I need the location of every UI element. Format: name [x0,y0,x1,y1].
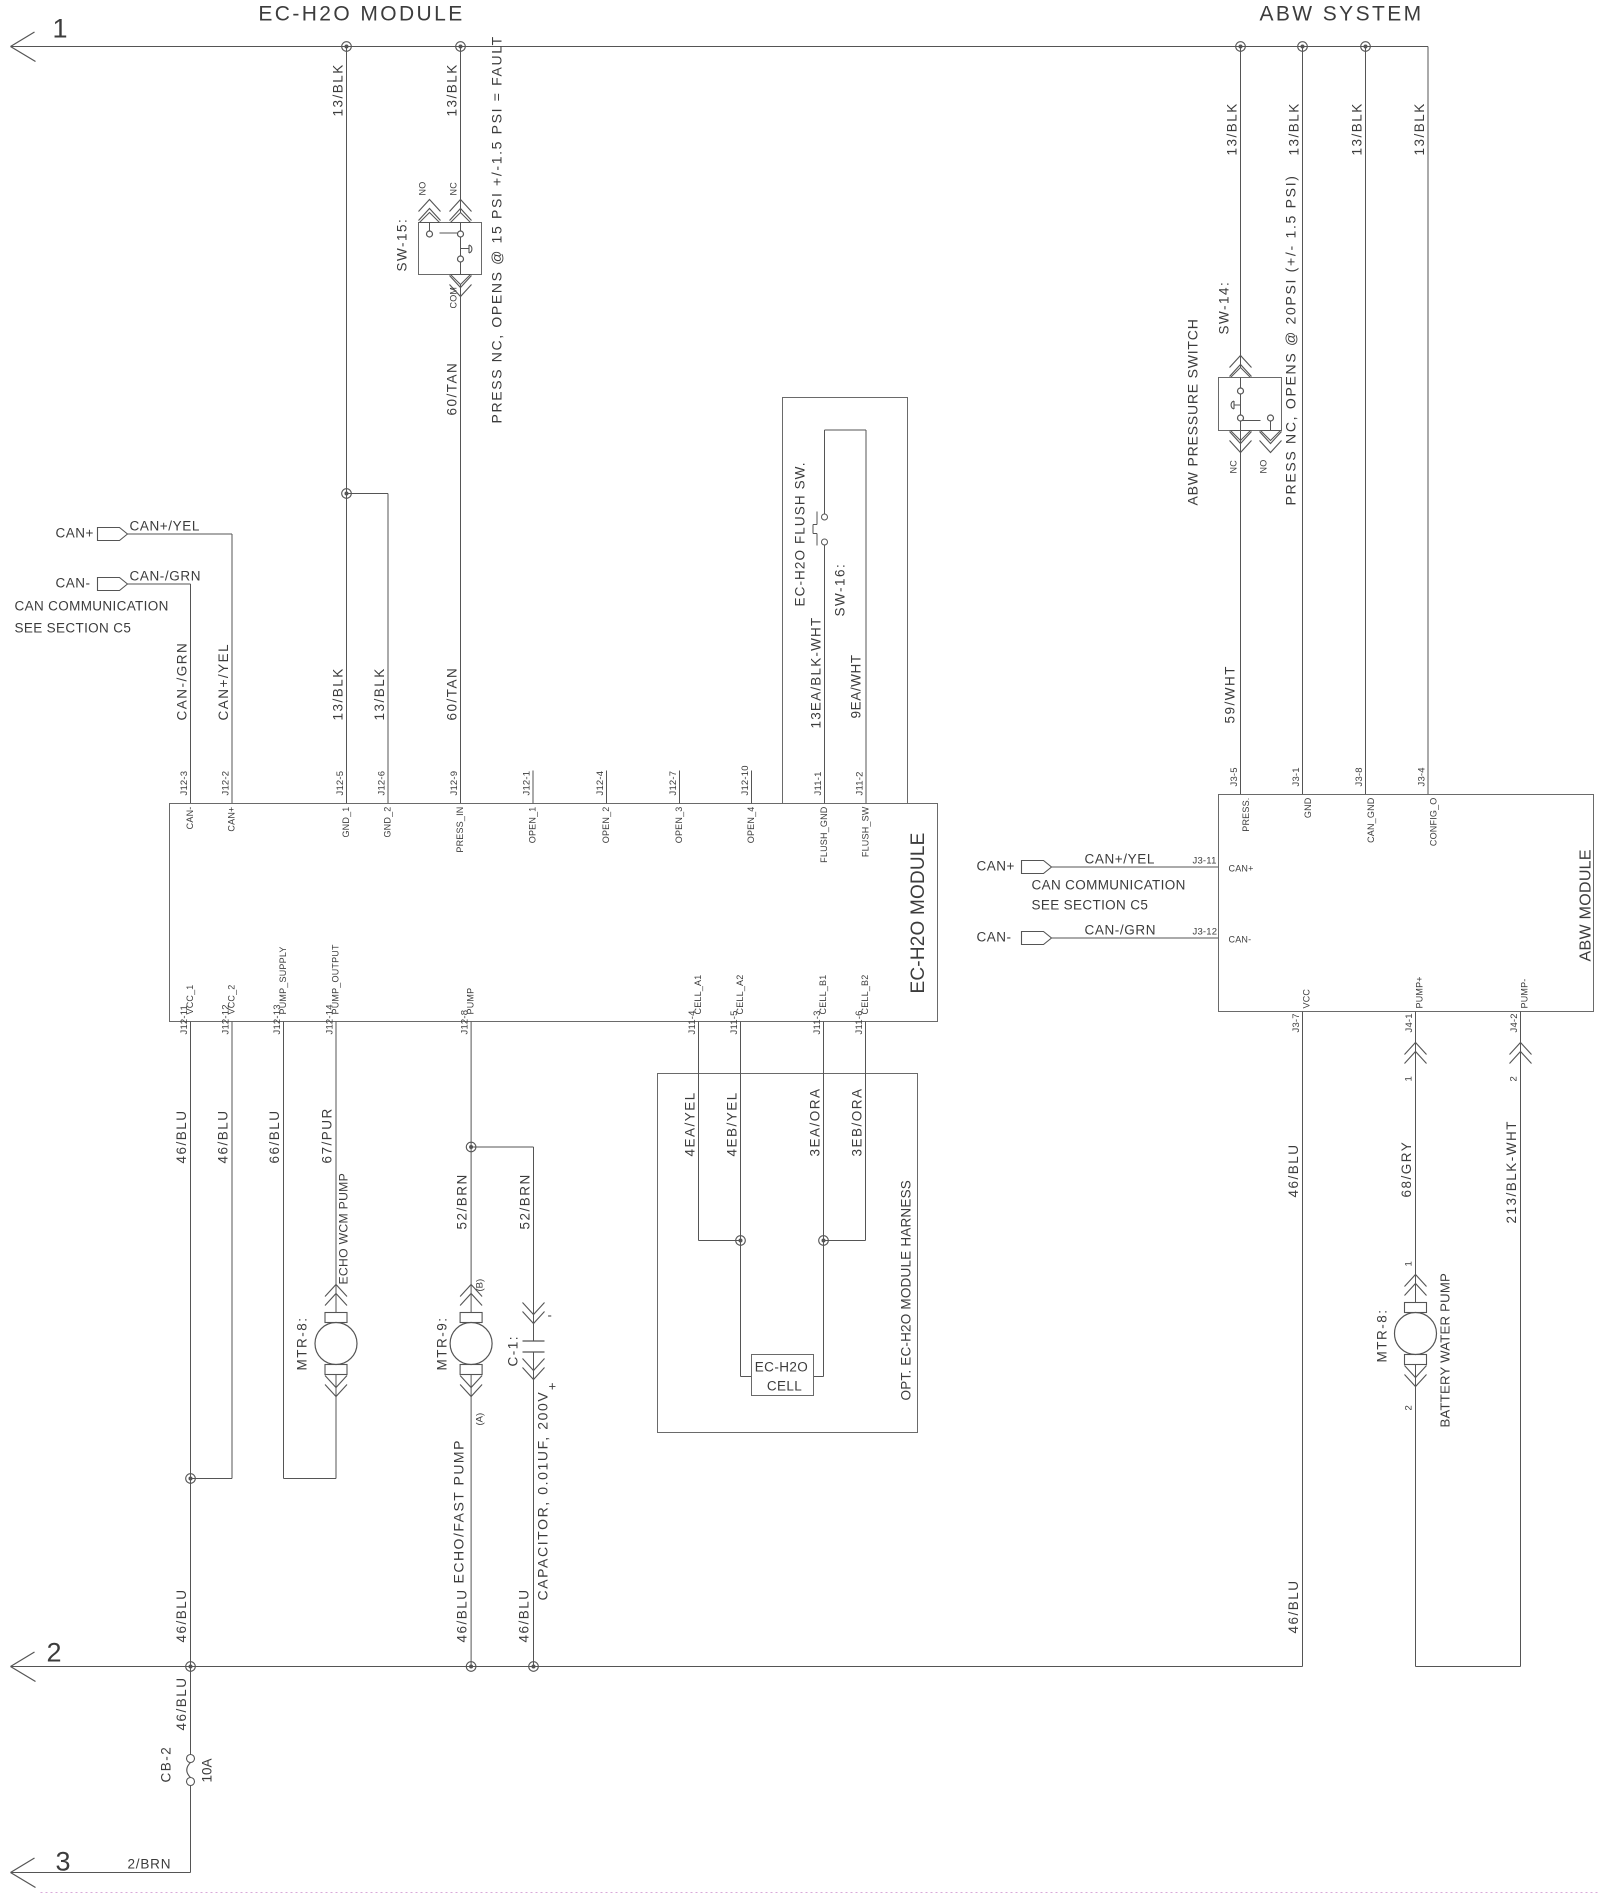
svg-text:10A: 10A [200,1758,215,1782]
svg-text:J3-5: J3-5 [1229,767,1240,786]
svg-text:SEE SECTION C5: SEE SECTION C5 [1032,898,1149,913]
pin J12-7 OPEN_3 [668,771,684,844]
svg-text:J11-1: J11-1 [813,771,824,795]
svg-text:60/TAN: 60/TAN [445,362,460,416]
svg-text:CB-2: CB-2 [159,1746,174,1783]
pin J12-3 CAN- [179,771,195,830]
svg-text:13/BLK: 13/BLK [445,63,460,116]
svg-text:J11-2: J11-2 [855,771,866,795]
wire 4EA/YEL [683,1022,741,1241]
svg-text:PUMP-: PUMP- [1520,979,1530,1009]
svg-text:J3-7: J3-7 [1291,1013,1302,1032]
label ECHO WCM PUMP [337,1173,351,1285]
svg-text:ABW MODULE: ABW MODULE [1578,849,1595,961]
SW-15 pin NC [449,182,472,237]
svg-text:1: 1 [1404,1076,1415,1081]
switch SW-16 contacts [822,514,828,545]
pin J12-9 PRESS_IN [449,771,465,853]
svg-text:SW-14:: SW-14: [1217,281,1232,335]
SW-15 label [395,218,410,272]
svg-text:CAN+: CAN+ [977,859,1015,874]
EC-H2O module box [170,804,938,1022]
SW-14 label [1217,281,1232,335]
label ECHO/FAST PUMP [451,1439,467,1583]
pin J12-10 OPEN_4 [740,765,756,843]
wire cap branch link [471,1146,533,1148]
wire C-1 to bus 2 [517,1352,545,1667]
svg-text:66/BLU: 66/BLU [267,1109,282,1163]
svg-text:PRESS NC, OPENS @ 15 PSI +/-1.: PRESS NC, OPENS @ 15 PSI +/-1.5 PSI = FA… [489,35,505,423]
svg-text:3EA/ORA: 3EA/ORA [808,1087,823,1156]
svg-text:CAN-/GRN: CAN-/GRN [130,569,202,584]
note CAN communication right [1032,878,1186,913]
svg-text:13/BLK: 13/BLK [331,63,346,116]
svg-text:NC: NC [1229,460,1239,474]
svg-text:FLUSH_SW: FLUSH_SW [861,806,871,857]
svg-text:PUMP+: PUMP+ [1415,976,1425,1008]
wire 46/BLU VCC abw [1286,1012,1303,1667]
svg-text:CAN COMMUNICATION: CAN COMMUNICATION [15,599,169,614]
svg-text:52/BRN: 52/BRN [455,1173,470,1229]
svg-text:CELL_A1: CELL_A1 [693,975,703,1015]
svg-text:46/BLU: 46/BLU [1286,1143,1301,1197]
svg-text:COM: COM [449,287,459,309]
svg-text:VCC: VCC [1302,989,1312,1009]
note CAN communication left [15,599,169,636]
pressure switch SW-15 body [419,223,482,275]
svg-text:PUMP: PUMP [466,988,476,1015]
svg-text:MTR-8:: MTR-8: [1375,1309,1390,1363]
SW-15 pin COM [449,256,472,309]
svg-text:OPEN_3: OPEN_3 [674,807,684,844]
svg-text:J3-8: J3-8 [1354,767,1365,786]
pin J11-4 CELL_A1 [687,975,703,1035]
CAN+ tag left [98,528,128,541]
wire CAN+/YEL right [1052,852,1219,868]
circuit breaker CB-2 [187,1755,195,1786]
pin J3-1 GND [1291,767,1313,818]
EC-H2O cell box [752,1355,814,1396]
svg-text:CAN-: CAN- [1229,935,1252,945]
junction cell A [736,1236,746,1246]
svg-text:CAPACITOR, 0.01UF, 200V: CAPACITOR, 0.01UF, 200V [535,1391,551,1601]
junction 13/BLK branch [342,489,352,499]
wire pump return [1416,1365,1521,1667]
svg-text:13/BLK: 13/BLK [331,667,346,720]
wire 13/BLK to SW-14 [1225,47,1241,378]
SW-14 lever [1243,420,1261,422]
wire 13/BLK to J3-8 [1350,47,1366,795]
svg-text:46/BLU: 46/BLU [174,1676,189,1730]
MTR-9 terminal A [475,1413,486,1426]
svg-text:CAN+/YEL: CAN+/YEL [130,519,200,534]
junction line1-13/BLK-b [456,42,466,52]
pin J3-7 VCC [1291,989,1312,1033]
pin J11-1 FLUSH_GND [813,771,829,862]
svg-text:BATTERY WATER PUMP: BATTERY WATER PUMP [1438,1273,1453,1428]
SW-14 note [1283,174,1299,505]
svg-text:ECHO WCM PUMP: ECHO WCM PUMP [337,1173,351,1285]
svg-text:CAN+/YEL: CAN+/YEL [216,643,231,721]
pin J12-6 GND_2 [377,771,393,838]
motor MTR-8 battery water pump [1395,1261,1437,1410]
svg-text:CAN+: CAN+ [227,807,237,832]
bus 3 arrow [11,1858,36,1888]
junction line1-CANGND [1361,42,1371,52]
svg-text:13/BLK: 13/BLK [372,667,387,720]
svg-text:13/BLK: 13/BLK [1225,102,1240,155]
SW-15 pin NO [418,182,441,237]
CAN- label left [56,576,91,591]
pin J11-6 CELL_B2 [854,975,870,1035]
wire CAN-/GRN left [128,569,202,804]
svg-text:MTR-8:: MTR-8: [295,1317,310,1371]
junction bus2 MTR9 [466,1662,476,1672]
svg-text:2: 2 [47,1638,62,1668]
svg-text:2/BRN: 2/BRN [128,1857,172,1872]
wire 66/BLU PUMP_SUPPLY [267,1022,336,1479]
label ABW PRESSURE SWITCH [1185,318,1201,505]
junction line1-13/BLK-a [342,42,352,52]
svg-text:OPT. EC-H2O MODULE HARNESS: OPT. EC-H2O MODULE HARNESS [899,1180,914,1401]
battery MTR-8 label [1375,1309,1390,1363]
svg-text:NO: NO [1259,460,1269,474]
svg-text:46/BLU: 46/BLU [174,1588,189,1642]
svg-text:EC-H2O: EC-H2O [755,1360,808,1375]
wire 13EA/BLK-WHT [809,545,825,804]
svg-text:MTR-9:: MTR-9: [435,1317,450,1371]
pin J12-13 PUMP_SUPPLY [272,946,288,1034]
SW-15 note [489,35,505,423]
svg-text:13/BLK: 13/BLK [1350,102,1365,155]
pin J11-3 CELL_B1 [812,975,828,1035]
SW-14 contact NO [1268,415,1274,421]
pin J12-8 PUMP [460,988,476,1035]
wire CAN+/YEL left [128,519,233,804]
EC-H2O cell label [755,1360,808,1394]
wire 13/BLK to J3-4 [1412,47,1428,795]
pin J12-5 GND_1 [335,771,351,838]
svg-text:CAN-: CAN- [185,807,195,830]
SW-15 lever [440,232,458,234]
svg-text:(B): (B) [475,1279,486,1292]
svg-text:J3-1: J3-1 [1291,767,1302,786]
svg-text:4EA/YEL: 4EA/YEL [683,1091,698,1156]
SW-14 pin top [1230,356,1252,378]
svg-text:59/WHT: 59/WHT [1223,665,1238,724]
pin J4-2 PUMP- [1509,979,1530,1033]
label BATTERY WATER PUMP [1438,1273,1453,1428]
junction pump/cap [466,1142,476,1152]
svg-text:VCC_1: VCC_1 [185,984,195,1014]
CAN- tag left [98,578,128,591]
svg-text:GND_1: GND_1 [341,807,351,838]
wire 59/WHT to J3-5 [1223,431,1241,795]
wire 52/BRN capacitor [518,1147,545,1341]
svg-text:OPEN_4: OPEN_4 [746,807,756,844]
SW-14 pin NO [1259,421,1282,474]
wire 60/TAN to J12-9 [445,285,461,804]
svg-text:2: 2 [1509,1076,1520,1081]
switch SW-16 label [833,563,848,617]
svg-text:PRESS.: PRESS. [1241,798,1251,832]
wire bus 2 [11,1666,1303,1668]
bus 2 label [47,1638,62,1668]
CB-2 rating [200,1758,215,1782]
svg-text:J4-2: J4-2 [1509,1013,1520,1032]
svg-text:CELL: CELL [767,1379,802,1394]
svg-text:46/BLU: 46/BLU [216,1109,231,1163]
junction VCC tie [186,1474,196,1484]
svg-text:J12-10: J12-10 [740,765,751,795]
wire 3EA/ORA [808,1022,824,1377]
EC-H2O flush switch box [783,398,908,804]
wire 46/BLU VCC_2 [191,1022,233,1479]
svg-text:NO: NO [418,182,428,196]
svg-text:FLUSH_GND: FLUSH_GND [819,806,829,863]
wire 13/BLK to J3-1 [1287,47,1303,795]
wire 4EB/YEL [725,1022,752,1377]
pin J12-14 PUMP_OUTPUT [325,944,341,1035]
junction line1-GND [1298,42,1308,52]
wire 68/GRY PUMP+ [1399,1012,1427,1303]
svg-text:NC: NC [449,182,459,196]
svg-text:ABW SYSTEM: ABW SYSTEM [1259,3,1423,26]
svg-text:J12-1: J12-1 [522,771,533,796]
C-1 label [506,1335,521,1367]
svg-text:4EB/YEL: 4EB/YEL [725,1091,740,1156]
svg-text:CELL_B2: CELL_B2 [860,975,870,1015]
pin J3-4 CONFIG_O [1417,767,1439,846]
svg-text:-: - [548,1308,554,1323]
svg-text:13EA/BLK-WHT: 13EA/BLK-WHT [809,617,824,729]
svg-text:OPEN_2: OPEN_2 [601,807,611,844]
svg-text:CAN-: CAN- [56,576,91,591]
svg-text:13/BLK: 13/BLK [1287,102,1302,155]
bus 2 arrow [11,1652,36,1682]
CAN+ label right [977,859,1015,874]
svg-text:J12-3: J12-3 [179,771,190,796]
ABW module name [1578,849,1595,961]
SW-14 pressure actuator [1231,401,1240,409]
svg-text:EC-H2O MODULE: EC-H2O MODULE [258,3,464,26]
junction cell B [819,1236,829,1246]
pin J4-1 PUMP+ [1404,976,1425,1032]
svg-text:PRESS_IN: PRESS_IN [455,807,465,853]
pin J12-4 OPEN_2 [595,771,611,844]
harness label [899,1180,914,1401]
svg-text:68/GRY: 68/GRY [1399,1141,1414,1198]
pin J3-12 CAN- [1193,927,1252,945]
svg-text:213/BLK-WHT: 213/BLK-WHT [1504,1120,1519,1224]
pin J12-12 VCC_2 [221,984,237,1034]
svg-text:SEE SECTION C5: SEE SECTION C5 [15,621,132,636]
svg-text:3EB/ORA: 3EB/ORA [850,1087,865,1156]
svg-text:SW-16:: SW-16: [833,563,848,617]
svg-text:EC-H2O MODULE: EC-H2O MODULE [908,833,929,994]
svg-text:J12-6: J12-6 [377,771,388,796]
pin J11-2 FLUSH_SW [855,771,871,857]
svg-text:C-1:: C-1: [506,1335,521,1367]
svg-text:46/BLU: 46/BLU [517,1588,532,1642]
svg-text:GND_2: GND_2 [383,807,393,838]
svg-text:J3-11: J3-11 [1193,856,1217,867]
SW-14 contact top [1238,378,1244,395]
svg-text:PUMP_SUPPLY: PUMP_SUPPLY [278,946,288,1014]
pin J3-11 CAN+ [1193,856,1254,874]
svg-text:CAN+/YEL: CAN+/YEL [1085,852,1155,867]
motor MTR-9 echo fast pump [450,1285,492,1397]
svg-text:60/TAN: 60/TAN [445,667,460,721]
svg-text:CAN COMMUNICATION: CAN COMMUNICATION [1032,878,1186,893]
page edge mark [41,1892,1600,1894]
svg-text:(A): (A) [475,1413,486,1426]
svg-text:J12-2: J12-2 [221,771,232,796]
EC-H2O module name [908,833,929,994]
svg-text:CAN+: CAN+ [1229,864,1254,874]
wire 2/BRN [11,1786,191,1873]
wire CAN-/GRN right [1052,923,1219,939]
SW-14 pin NC [1229,421,1252,474]
svg-text:13/BLK: 13/BLK [1412,102,1427,155]
svg-text:OPEN_1: OPEN_1 [528,807,538,844]
wire 13/BLK to SW-15 [445,47,461,223]
svg-text:PRESS NC, OPENS @ 20PSI (+/- 1: PRESS NC, OPENS @ 20PSI (+/- 1.5 PSI) [1283,174,1299,505]
wire 52/BRN pump [455,1022,472,1313]
svg-text:9EA/WHT: 9EA/WHT [849,654,864,718]
wire bus 1 [11,46,1429,48]
MTR-8 label [295,1317,310,1371]
svg-text:VCC_2: VCC_2 [227,984,237,1014]
junction bus2 C1 [529,1662,539,1672]
wire 46/BLU to CB-2 [174,1667,191,1755]
svg-text:46/BLU: 46/BLU [455,1588,470,1642]
pin J3-8 CAN_GND [1354,767,1376,843]
pin J12-11 VCC_1 [179,984,195,1034]
wire 9EA/WHT [825,430,867,804]
label capacitor value [535,1391,551,1601]
header EC-H2O MODULE [258,3,464,26]
svg-text:J3-12: J3-12 [1193,927,1218,938]
svg-text:67/PUR: 67/PUR [320,1107,335,1163]
svg-text:CONFIG_O: CONFIG_O [1429,798,1439,847]
svg-text:CAN-/GRN: CAN-/GRN [175,642,190,721]
CAN+ tag right [1022,861,1052,874]
svg-text:CELL_B1: CELL_B1 [818,975,828,1015]
wire 213/BLK-WHT PUMP- [1504,1012,1532,1667]
svg-text:PUMP_OUTPUT: PUMP_OUTPUT [331,944,341,1015]
svg-text:CELL_A2: CELL_A2 [735,975,745,1015]
svg-text:CAN-: CAN- [977,930,1012,945]
SW-15 contact arm [460,237,462,257]
svg-text:CAN+: CAN+ [56,526,94,541]
MTR-9 label [435,1317,450,1371]
motor MTR-8 echo wcm pump [315,1285,357,1397]
junction bus2 CB [186,1662,196,1672]
svg-text:1: 1 [53,14,68,44]
switch SW-16 button [813,512,817,546]
pin J3-5 PRESS. [1229,767,1251,832]
bus 1 label [53,14,68,44]
svg-text:CAN-/GRN: CAN-/GRN [1085,923,1157,938]
pin J11-5 CELL_A2 [729,975,745,1035]
opt EC-H2O module harness box [658,1074,918,1433]
svg-text:J12-9: J12-9 [449,771,460,796]
wire 46/BLU VCC_1 [174,1022,191,1667]
ABW module box [1219,795,1594,1012]
header ABW SYSTEM [1259,3,1423,26]
flush switch label [793,461,808,606]
capacitor C-1 [523,1308,558,1394]
CB-2 label [159,1746,174,1783]
bus 1 arrow [11,32,36,62]
svg-text:ECHO/FAST PUMP: ECHO/FAST PUMP [451,1439,467,1583]
bus 3 label [56,1847,71,1877]
wire 13/BLK to J12-5 [331,47,347,804]
svg-text:J4-1: J4-1 [1404,1013,1415,1032]
wire MTR-9 to bus 2 [455,1375,472,1667]
MTR-9 terminal B [475,1279,486,1292]
CAN+ label left [56,526,94,541]
CAN- label right [977,930,1012,945]
pin J12-1 OPEN_1 [522,771,538,844]
svg-text:46/BLU: 46/BLU [174,1109,189,1163]
svg-text:J12-4: J12-4 [595,771,606,796]
pin J12-2 CAN+ [221,771,237,832]
SW-15 pressure actuator [461,245,472,253]
wire 3EB/ORA [824,1022,866,1241]
svg-text:3: 3 [56,1847,71,1877]
svg-text:J12-7: J12-7 [668,771,679,796]
svg-text:SW-15:: SW-15: [395,218,410,272]
svg-text:GND: GND [1303,797,1313,818]
svg-text:1: 1 [1404,1261,1415,1266]
wire 13/BLK to J12-6 [347,494,389,804]
svg-text:52/BRN: 52/BRN [518,1173,533,1229]
CAN- tag right [1022,932,1052,945]
svg-text:2: 2 [1404,1405,1415,1410]
wire MTR-8 return [335,1375,337,1479]
SW-14 contact arm [1240,394,1242,416]
SW-14 contact NC [1238,415,1244,421]
svg-text:46/BLU: 46/BLU [1286,1579,1301,1633]
svg-text:CAN_GND: CAN_GND [1366,797,1376,843]
pressure switch SW-14 body [1219,378,1282,431]
wire 67/PUR PUMP_OUTPUT [320,1022,337,1313]
svg-text:J3-4: J3-4 [1417,767,1428,786]
svg-text:EC-H2O FLUSH SW.: EC-H2O FLUSH SW. [793,461,808,606]
svg-text:J12-5: J12-5 [335,771,346,796]
junction line1-SW14 [1236,42,1246,52]
svg-text:ABW PRESSURE SWITCH: ABW PRESSURE SWITCH [1185,318,1201,505]
